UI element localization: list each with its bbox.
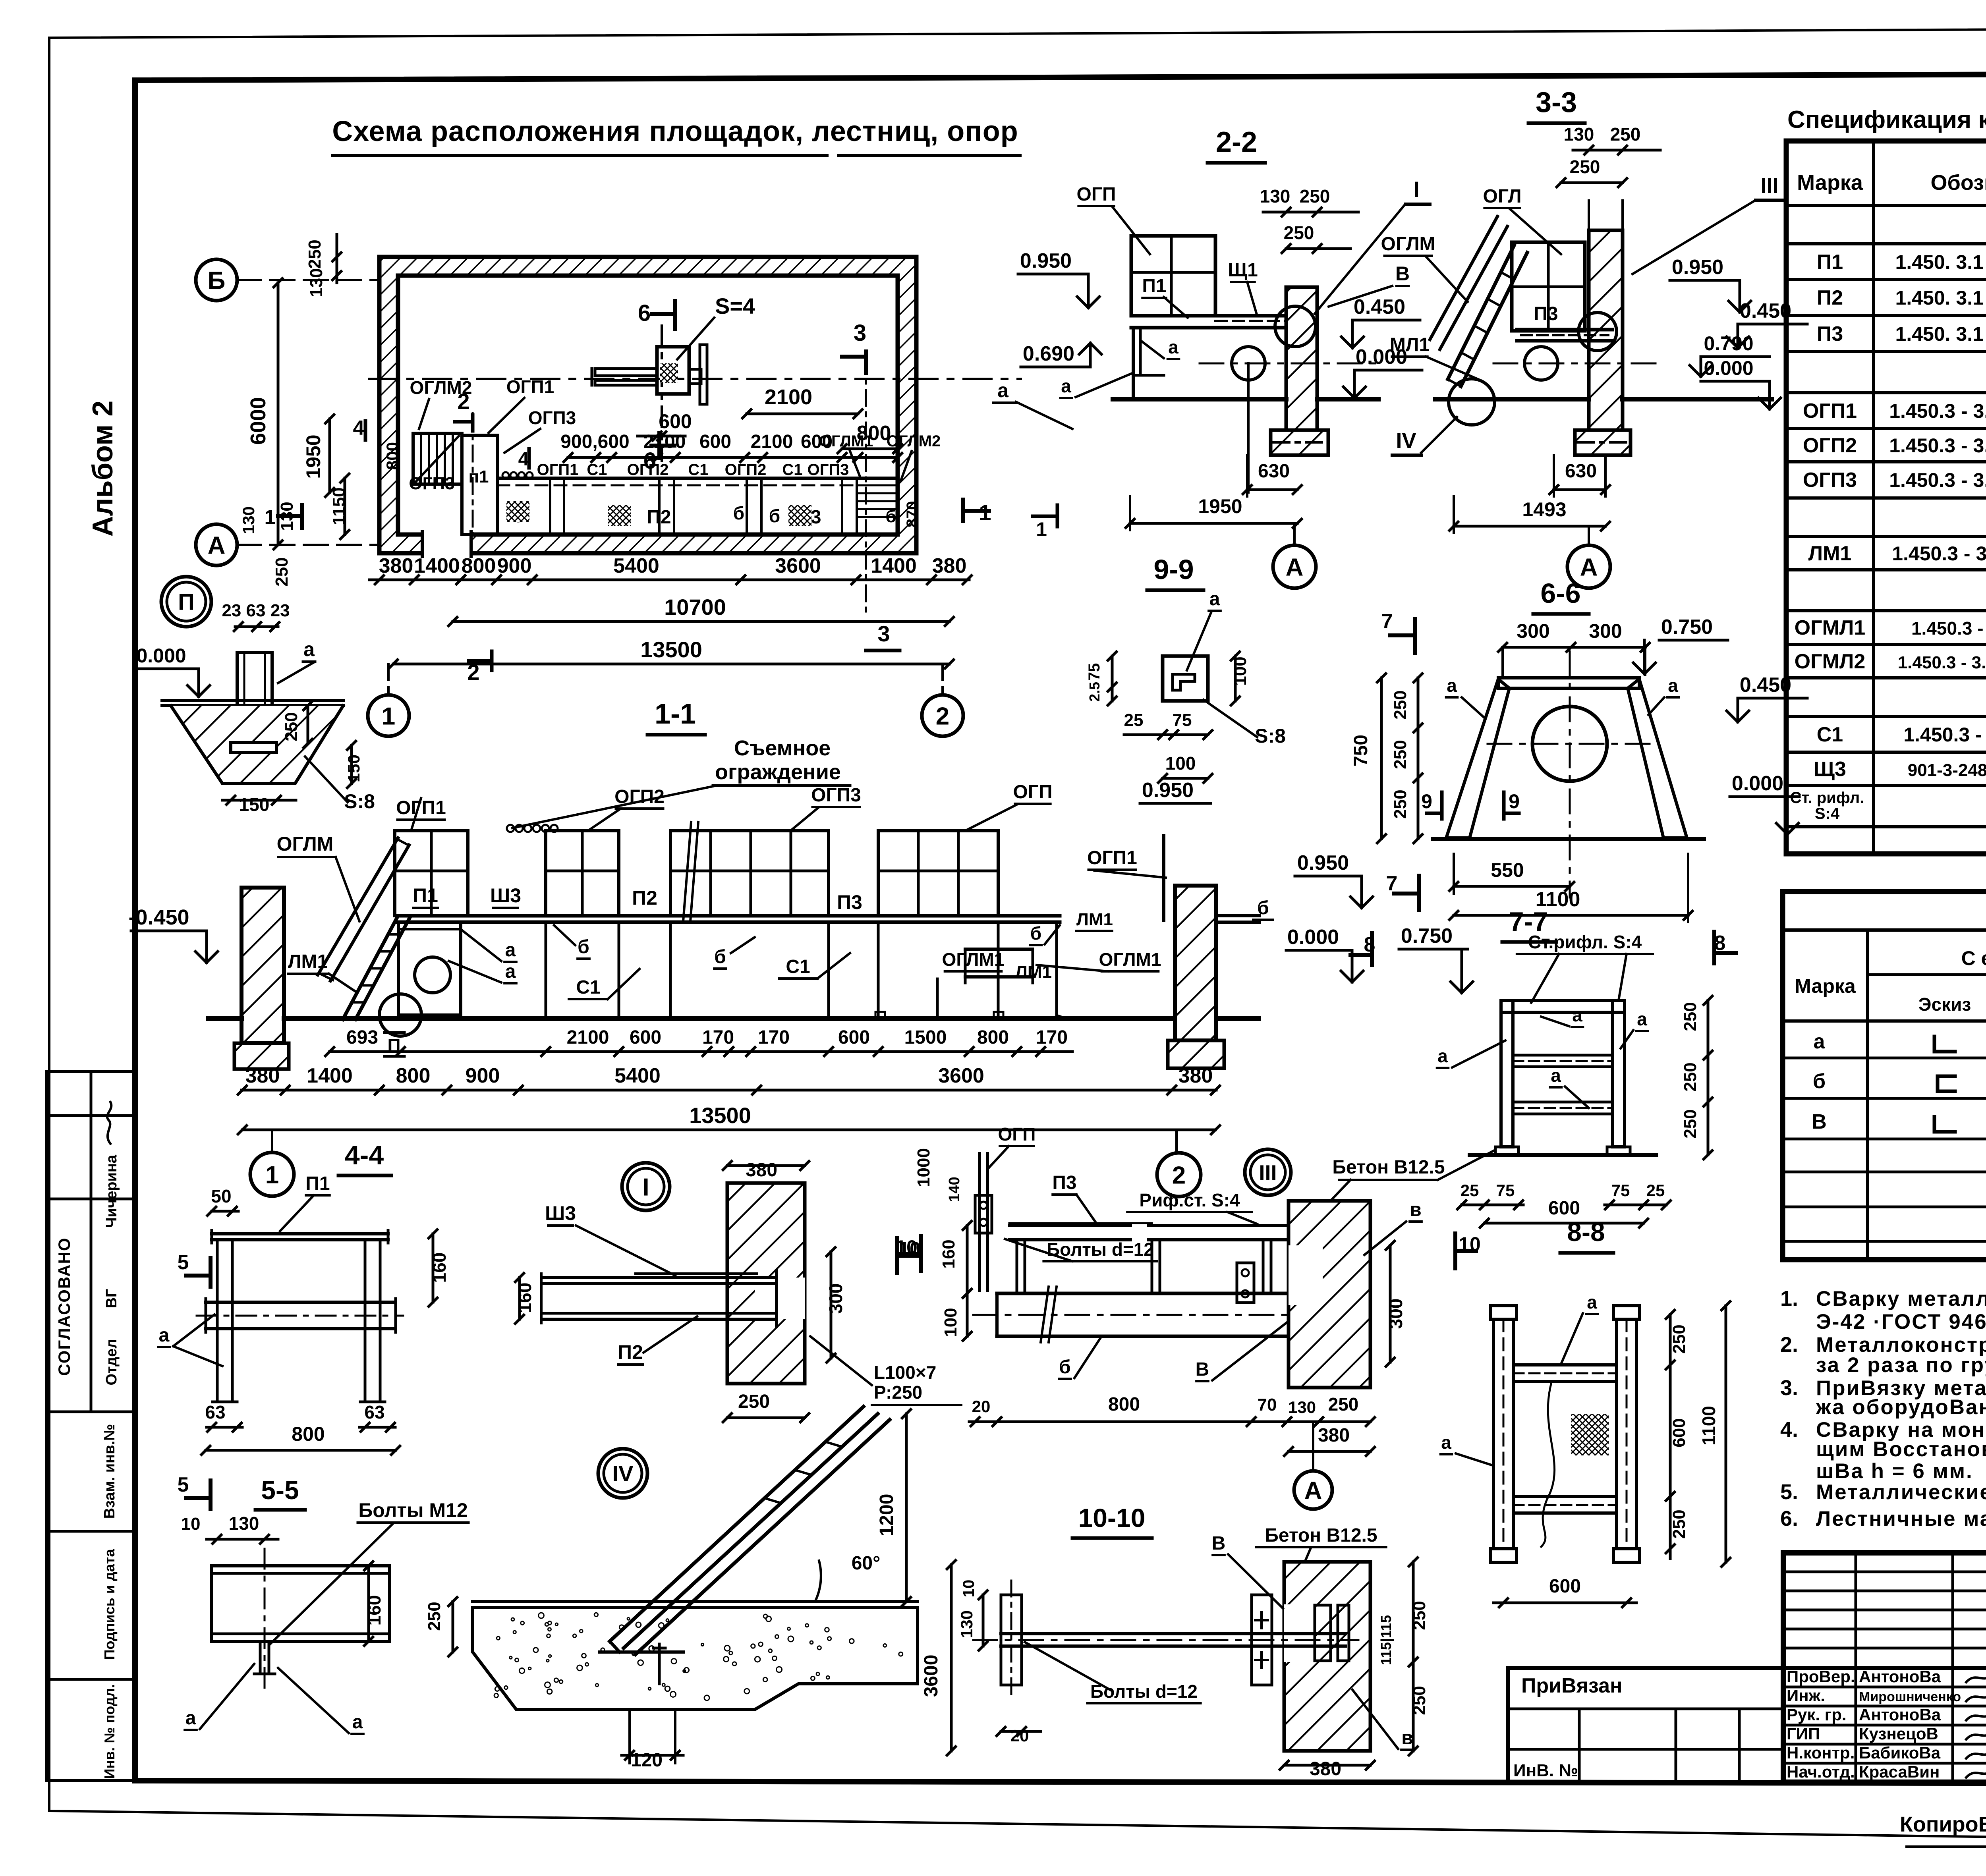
- svg-text:Съемное: Съемное: [734, 736, 831, 760]
- svg-text:в: в: [1401, 1727, 1413, 1749]
- svg-text:Риф.ст. S:4: Риф.ст. S:4: [1139, 1190, 1240, 1210]
- svg-text:1950: 1950: [1198, 495, 1242, 517]
- svg-text:250: 250: [1681, 1062, 1700, 1091]
- svg-text:Схема расположения площадок, л: Схема расположения площадок, лестниц, оп…: [332, 116, 1018, 147]
- svg-text:Инв. № подл.: Инв. № подл.: [101, 1684, 118, 1779]
- svg-text:3600: 3600: [775, 554, 821, 577]
- svg-text:250: 250: [425, 1602, 444, 1631]
- svg-text:2100: 2100: [765, 385, 812, 409]
- svg-text:250: 250: [1681, 1109, 1700, 1138]
- svg-text:250: 250: [1669, 1509, 1689, 1538]
- svg-text:0.950: 0.950: [1142, 779, 1194, 802]
- svg-text:0.790: 0.790: [1704, 332, 1753, 355]
- svg-text:300: 300: [825, 1283, 846, 1314]
- svg-text:130: 130: [1288, 1398, 1316, 1417]
- svg-text:С1: С1: [786, 956, 810, 977]
- svg-text:140: 140: [946, 1177, 963, 1202]
- svg-text:870: 870: [904, 501, 921, 528]
- svg-text:630: 630: [1258, 461, 1290, 482]
- svg-text:0.450: 0.450: [1740, 299, 1791, 322]
- svg-text:800: 800: [396, 1064, 431, 1087]
- svg-text:а: а: [185, 1708, 196, 1729]
- svg-text:а: а: [1572, 1005, 1582, 1025]
- svg-text:2100: 2100: [567, 1027, 609, 1048]
- svg-text:8-8: 8-8: [1567, 1217, 1605, 1247]
- svg-text:800: 800: [1108, 1394, 1140, 1415]
- svg-text:С1: С1: [576, 977, 600, 998]
- svg-text:а: а: [1668, 675, 1678, 696]
- svg-text:Отдел: Отдел: [103, 1339, 120, 1385]
- svg-text:ОГП2: ОГП2: [725, 461, 767, 479]
- svg-text:900: 900: [497, 554, 532, 577]
- svg-text:а: а: [1061, 376, 1071, 396]
- svg-text:13500: 13500: [689, 1103, 751, 1128]
- svg-text:25: 25: [1124, 710, 1144, 730]
- svg-text:1.: 1.: [1780, 1287, 1798, 1310]
- svg-text:10: 10: [181, 1514, 201, 1534]
- svg-text:5.: 5.: [1780, 1480, 1798, 1504]
- svg-text:П2: П2: [647, 507, 671, 528]
- svg-text:б: б: [769, 506, 780, 526]
- svg-text:1.450. 3.1 2.1.1.0.0 - 13: 1.450. 3.1 2.1.1.0.0 - 13: [1895, 251, 1986, 273]
- svg-text:250: 250: [305, 239, 325, 268]
- svg-text:1: 1: [1036, 518, 1047, 540]
- svg-text:S:8: S:8: [1255, 725, 1286, 747]
- svg-text:3: 3: [877, 621, 890, 646]
- svg-text:1500: 1500: [904, 1027, 947, 1048]
- svg-text:250: 250: [1300, 186, 1330, 207]
- svg-text:5-5: 5-5: [261, 1475, 299, 1505]
- svg-text:2100: 2100: [643, 431, 686, 452]
- svg-text:П3: П3: [1052, 1172, 1076, 1193]
- svg-text:150: 150: [239, 794, 270, 815]
- svg-text:70: 70: [1258, 1395, 1277, 1415]
- svg-text:0.000: 0.000: [1732, 772, 1783, 795]
- svg-text:ОГЛМ1: ОГЛМ1: [1099, 949, 1161, 970]
- svg-text:А: А: [1580, 554, 1598, 581]
- svg-text:ИнВ. №: ИнВ. №: [1513, 1761, 1578, 1780]
- svg-text:4: 4: [353, 417, 365, 440]
- svg-text:КопироВал: БоброВа: КопироВал: БоброВа: [1900, 1812, 1986, 1836]
- svg-text:ОГП1: ОГП1: [1803, 400, 1857, 423]
- svg-text:а: а: [352, 1712, 363, 1733]
- svg-text:а: а: [1441, 1432, 1451, 1453]
- svg-text:ОГЛМ: ОГЛМ: [277, 833, 334, 855]
- svg-text:1.450.3 - 3.1 3.1.0.1.0: 1.450.3 - 3.1 3.1.0.1.0: [1903, 724, 1986, 746]
- svg-text:100: 100: [941, 1308, 960, 1337]
- svg-text:75: 75: [1611, 1181, 1630, 1200]
- svg-text:60°: 60°: [852, 1553, 881, 1574]
- svg-text:П2: П2: [632, 887, 657, 909]
- svg-text:б: б: [578, 936, 589, 957]
- svg-text:750: 750: [1350, 735, 1372, 766]
- svg-text:б: б: [1059, 1357, 1071, 1378]
- svg-text:С1: С1: [1817, 723, 1843, 746]
- svg-text:0.750: 0.750: [1661, 616, 1713, 639]
- svg-text:I: I: [1413, 177, 1420, 202]
- svg-text:250: 250: [738, 1391, 770, 1412]
- svg-text:9-9: 9-9: [1153, 554, 1194, 585]
- svg-text:а: а: [1551, 1065, 1561, 1086]
- svg-text:Инж.: Инж.: [1787, 1686, 1825, 1705]
- svg-text:250: 250: [1681, 1002, 1700, 1031]
- svg-text:1.450.3 - 3.1 4.1.2.1.0: 1.450.3 - 3.1 4.1.2.1.0: [1911, 618, 1986, 639]
- svg-text:300: 300: [1517, 620, 1549, 642]
- svg-text:Э-42 ·ГОСТ 9467-75.: Э-42 ·ГОСТ 9467-75.: [1816, 1310, 1986, 1334]
- svg-text:800: 800: [462, 554, 496, 577]
- svg-text:2: 2: [457, 389, 469, 414]
- svg-text:0.450: 0.450: [1740, 674, 1791, 697]
- svg-text:ОГП3: ОГП3: [808, 461, 849, 479]
- svg-text:2.5: 2.5: [1086, 682, 1103, 702]
- svg-text:ОГМЛ2: ОГМЛ2: [1795, 650, 1866, 673]
- svg-text:щим Восстановлением зашитного: щим Восстановлением зашитного покрытия, …: [1816, 1438, 1986, 1461]
- svg-text:380: 380: [379, 554, 413, 577]
- svg-text:800: 800: [383, 442, 402, 470]
- svg-text:2: 2: [936, 703, 949, 730]
- svg-text:Марка: Марка: [1797, 171, 1863, 195]
- svg-text:I: I: [642, 1173, 649, 1201]
- svg-text:б: б: [733, 503, 744, 523]
- svg-text:100: 100: [1231, 656, 1250, 685]
- svg-text:115|115: 115|115: [1378, 1615, 1395, 1665]
- svg-text:5: 5: [178, 1473, 189, 1496]
- svg-text:2: 2: [1172, 1162, 1186, 1189]
- svg-text:КрасаВин: КрасаВин: [1859, 1762, 1940, 1781]
- svg-text:ВГ: ВГ: [103, 1289, 120, 1309]
- svg-text:П2: П2: [618, 1341, 643, 1363]
- svg-text:С1: С1: [587, 461, 607, 479]
- svg-text:Чичерина: Чичерина: [103, 1154, 120, 1228]
- svg-text:75: 75: [1496, 1181, 1515, 1200]
- svg-text:50: 50: [211, 1186, 231, 1206]
- svg-text:25: 25: [1461, 1181, 1479, 1200]
- svg-text:Металлические площадки перек: Металлические площадки перекрыть рифлено…: [1816, 1480, 1986, 1504]
- svg-text:ОГП2: ОГП2: [1803, 434, 1857, 457]
- svg-text:10700: 10700: [664, 594, 726, 620]
- svg-text:600: 600: [801, 431, 833, 452]
- svg-text:Лестничные марши крепить к: Лестничные марши крепить к полу заершенн…: [1816, 1507, 1986, 1531]
- svg-text:250: 250: [1391, 740, 1410, 769]
- svg-text:а: а: [1437, 1046, 1448, 1066]
- svg-text:ОГП1: ОГП1: [537, 461, 579, 479]
- svg-text:жа оборудоВания.: жа оборудоВания.: [1816, 1395, 1986, 1419]
- svg-text:а: а: [1637, 1009, 1647, 1029]
- svg-text:250: 250: [282, 712, 301, 741]
- svg-text:3: 3: [854, 320, 866, 346]
- svg-text:130: 130: [239, 506, 258, 534]
- svg-text:300: 300: [1589, 620, 1622, 642]
- svg-text:3600: 3600: [938, 1064, 984, 1087]
- svg-text:ОГП2: ОГП2: [614, 786, 665, 807]
- svg-text:6: 6: [638, 300, 651, 326]
- svg-text:6.: 6.: [1780, 1507, 1798, 1531]
- svg-text:25: 25: [1646, 1181, 1665, 1200]
- svg-text:ОГП: ОГП: [1076, 184, 1116, 205]
- svg-text:1.450.3 - 3.1 5.1.0.1.0-17: 1.450.3 - 3.1 5.1.0.1.0-17: [1889, 469, 1986, 491]
- svg-text:Б: Б: [208, 267, 226, 294]
- svg-text:Щ3: Щ3: [1814, 758, 1846, 781]
- svg-text:б: б: [1813, 1070, 1826, 1093]
- svg-text:630: 630: [1565, 461, 1597, 482]
- svg-text:900,600: 900,600: [560, 431, 630, 452]
- svg-text:170: 170: [702, 1027, 734, 1048]
- svg-text:130: 130: [1564, 124, 1594, 145]
- svg-text:ОГП1: ОГП1: [1087, 847, 1137, 869]
- svg-text:380: 380: [245, 1064, 280, 1087]
- svg-text:L100×7: L100×7: [874, 1362, 936, 1383]
- svg-text:6-6: 6-6: [1540, 578, 1580, 609]
- svg-text:380: 380: [932, 554, 967, 577]
- svg-text:1400: 1400: [871, 554, 917, 577]
- svg-text:693: 693: [346, 1027, 378, 1048]
- svg-text:в: в: [1410, 1199, 1422, 1220]
- svg-text:В: В: [1812, 1110, 1827, 1133]
- svg-text:Подпись и дата: Подпись и дата: [101, 1549, 118, 1660]
- svg-text:АнтоноВа: АнтоноВа: [1859, 1667, 1941, 1686]
- svg-text:130: 130: [307, 268, 326, 297]
- svg-text:П3: П3: [1817, 322, 1843, 345]
- svg-text:а: а: [505, 961, 516, 982]
- svg-text:Нач.отд.: Нач.отд.: [1787, 1762, 1855, 1781]
- svg-text:В: В: [1196, 1359, 1209, 1380]
- svg-text:300: 300: [1385, 1299, 1406, 1329]
- svg-text:1493: 1493: [1522, 498, 1566, 521]
- svg-text:1: 1: [265, 1161, 279, 1189]
- svg-text:Взам. инв.№: Взам. инв.№: [101, 1424, 118, 1519]
- svg-text:ОГП3: ОГП3: [811, 785, 861, 806]
- svg-text:ОГЛ: ОГЛ: [1483, 186, 1521, 207]
- svg-text:600: 600: [659, 410, 692, 432]
- svg-text:1: 1: [382, 703, 395, 730]
- svg-text:600: 600: [838, 1027, 870, 1048]
- svg-text:250: 250: [1570, 156, 1600, 177]
- svg-text:600: 600: [1549, 1576, 1581, 1597]
- svg-text:250: 250: [1610, 124, 1641, 145]
- svg-text:Болты М12: Болты М12: [358, 1499, 468, 1521]
- svg-text:1400: 1400: [307, 1064, 353, 1087]
- svg-text:550: 550: [1491, 859, 1524, 881]
- svg-text:Ст. рифл.: Ст. рифл.: [1790, 789, 1864, 807]
- svg-text:ОГП2: ОГП2: [627, 461, 669, 479]
- svg-text:Обозначение: Обозначение: [1930, 171, 1986, 195]
- svg-text:1.450.3 - 3.1 5.1.0.1.0-21: 1.450.3 - 3.1 5.1.0.1.0-21: [1889, 434, 1986, 457]
- svg-text:ПроВер.: ПроВер.: [1787, 1667, 1855, 1686]
- svg-text:IV: IV: [1396, 429, 1416, 453]
- svg-text:ОГП: ОГП: [998, 1124, 1036, 1145]
- svg-text:0.950: 0.950: [1672, 256, 1723, 279]
- svg-text:0.450: 0.450: [1354, 295, 1405, 318]
- svg-text:ЛМ1: ЛМ1: [288, 951, 328, 972]
- svg-text:а: а: [303, 638, 315, 660]
- svg-text:Альбом 2: Альбом 2: [87, 401, 119, 537]
- svg-text:Рук. гр.: Рук. гр.: [1787, 1705, 1847, 1724]
- svg-text:250: 250: [1391, 690, 1410, 719]
- svg-text:20: 20: [1010, 1726, 1029, 1745]
- svg-text:Болты d=12: Болты d=12: [1090, 1681, 1198, 1702]
- svg-text:3600: 3600: [921, 1655, 942, 1697]
- svg-text:900: 900: [466, 1064, 500, 1087]
- svg-text:П2: П2: [1817, 286, 1843, 309]
- svg-text:П1: П1: [305, 1173, 330, 1194]
- svg-text:600: 600: [630, 1027, 661, 1048]
- svg-text:III: III: [1760, 174, 1778, 198]
- svg-text:6000: 6000: [246, 397, 270, 445]
- svg-text:250: 250: [1328, 1394, 1359, 1415]
- svg-text:СВарку металлоконструкций пр: СВарку металлоконструкций произВодить эл…: [1816, 1287, 1986, 1310]
- svg-text:А: А: [208, 532, 226, 559]
- svg-text:п1: п1: [468, 467, 489, 486]
- svg-text:1: 1: [265, 506, 276, 529]
- svg-text:Ст.рифл. S:4: Ст.рифл. S:4: [1528, 932, 1642, 952]
- svg-text:МЛ1: МЛ1: [1390, 334, 1430, 355]
- svg-text:а: а: [505, 940, 516, 961]
- svg-text:5400: 5400: [614, 1064, 661, 1087]
- svg-text:1200: 1200: [876, 1494, 897, 1536]
- svg-text:S:8: S:8: [344, 790, 375, 813]
- svg-text:Бетон В12.5: Бетон В12.5: [1265, 1525, 1377, 1546]
- svg-text:1.450.3 - 3.1 4.1.2.1.0 - 09: 1.450.3 - 3.1 4.1.2.1.0 - 09: [1898, 653, 1986, 672]
- svg-text:5: 5: [178, 1251, 189, 1274]
- svg-text:III: III: [1259, 1161, 1277, 1185]
- svg-text:ОГП3: ОГП3: [528, 407, 576, 428]
- svg-text:600: 600: [1548, 1198, 1580, 1219]
- svg-text:0.750: 0.750: [1401, 924, 1453, 948]
- svg-text:13500: 13500: [640, 637, 702, 662]
- svg-text:170: 170: [1036, 1027, 1068, 1048]
- svg-text:В: В: [1395, 262, 1410, 285]
- svg-text:1000: 1000: [914, 1148, 933, 1187]
- svg-text:0.000: 0.000: [1287, 926, 1339, 949]
- svg-text:160: 160: [364, 1595, 384, 1626]
- svg-text:2100: 2100: [751, 431, 793, 452]
- svg-text:100: 100: [1165, 753, 1196, 774]
- svg-text:б: б: [885, 507, 896, 526]
- svg-text:800: 800: [977, 1027, 1009, 1048]
- svg-text:23 63 23: 23 63 23: [222, 601, 290, 620]
- svg-text:Болты d=12: Болты d=12: [1047, 1239, 1154, 1260]
- svg-text:ПриВязан: ПриВязан: [1521, 1674, 1623, 1697]
- svg-text:10: 10: [960, 1580, 978, 1598]
- svg-text:0.000: 0.000: [1704, 357, 1753, 379]
- svg-text:ОГП: ОГП: [1013, 782, 1052, 803]
- svg-text:1.450.3 - 3.1 5.1.0.1.0-16: 1.450.3 - 3.1 5.1.0.1.0-16: [1889, 400, 1986, 422]
- svg-text:S:4: S:4: [1815, 805, 1840, 822]
- svg-text:120: 120: [631, 1750, 663, 1771]
- svg-text:160: 160: [939, 1239, 958, 1268]
- svg-text:IV: IV: [612, 1461, 634, 1486]
- svg-text:П1: П1: [1817, 251, 1843, 274]
- svg-text:600: 600: [699, 431, 731, 452]
- svg-text:ЛМ1: ЛМ1: [1808, 542, 1852, 565]
- svg-text:П3: П3: [1534, 303, 1558, 324]
- svg-text:А: А: [1304, 1477, 1322, 1504]
- svg-text:3.: 3.: [1780, 1376, 1798, 1400]
- svg-text:П1: П1: [413, 884, 438, 907]
- svg-text:250: 250: [1391, 789, 1410, 818]
- svg-text:С е ч е н и е: С е ч е н и е: [1961, 947, 1986, 969]
- svg-text:П: П: [387, 1035, 400, 1056]
- svg-text:250: 250: [1669, 1324, 1689, 1353]
- svg-text:а: а: [1168, 337, 1178, 357]
- svg-text:1.450. 3.1 2.1.1.0.0 - 22: 1.450. 3.1 2.1.1.0.0 - 22: [1895, 323, 1986, 345]
- svg-text:250: 250: [272, 557, 292, 586]
- svg-text:600: 600: [1669, 1418, 1689, 1447]
- svg-text:1950: 1950: [302, 434, 325, 479]
- svg-text:Р:250: Р:250: [874, 1382, 922, 1403]
- svg-text:20: 20: [972, 1397, 991, 1416]
- svg-text:800: 800: [292, 1423, 325, 1445]
- svg-text:-0.450: -0.450: [128, 905, 189, 929]
- svg-text:2.: 2.: [1780, 1333, 1798, 1357]
- svg-text:0.950: 0.950: [1297, 851, 1349, 874]
- svg-text:1.450. 3.1 2.1.1.0.0 - 31: 1.450. 3.1 2.1.1.0.0 - 31: [1895, 287, 1986, 309]
- svg-text:Марка: Марка: [1795, 975, 1856, 997]
- svg-text:0.690: 0.690: [1023, 342, 1074, 365]
- svg-text:S=4: S=4: [715, 293, 755, 318]
- svg-text:ГИП: ГИП: [1787, 1724, 1820, 1743]
- svg-text:ОГМЛ1: ОГМЛ1: [1795, 616, 1866, 639]
- svg-text:Ш3: Ш3: [490, 884, 521, 907]
- svg-text:С1: С1: [688, 461, 708, 479]
- svg-text:63: 63: [364, 1402, 384, 1422]
- svg-text:1100: 1100: [1698, 1406, 1719, 1446]
- svg-text:75: 75: [1173, 710, 1192, 730]
- svg-text:ОГП3: ОГП3: [1803, 469, 1857, 492]
- svg-text:а: а: [1209, 589, 1220, 610]
- svg-text:0.950: 0.950: [1020, 249, 1072, 272]
- svg-text:250: 250: [1284, 222, 1314, 243]
- svg-text:ЛМ1: ЛМ1: [1076, 910, 1113, 929]
- svg-text:Мирошниченко: Мирошниченко: [1859, 1689, 1961, 1704]
- svg-text:ОГП1: ОГП1: [506, 376, 554, 397]
- svg-text:Щ1: Щ1: [1228, 260, 1258, 281]
- svg-text:10-10: 10-10: [1078, 1503, 1146, 1532]
- svg-text:Спецификация к схеме расположе: Спецификация к схеме расположения площад…: [1787, 106, 1986, 133]
- svg-text:ОГЛМ2: ОГЛМ2: [887, 432, 941, 450]
- svg-text:а: а: [1814, 1030, 1826, 1053]
- svg-text:4.: 4.: [1780, 1418, 1798, 1442]
- svg-text:шВа h = 6 мм.: шВа h = 6 мм.: [1816, 1459, 1973, 1483]
- svg-text:0.000: 0.000: [136, 645, 186, 667]
- svg-text:170: 170: [758, 1027, 790, 1048]
- svg-text:75: 75: [1086, 663, 1103, 681]
- svg-text:1.450.3 - 3.1 1.2.0.0 - 03: 1.450.3 - 3.1 1.2.0.0 - 03: [1892, 542, 1986, 565]
- svg-text:В: В: [1212, 1533, 1226, 1554]
- svg-text:П: П: [178, 589, 195, 615]
- svg-text:4-4: 4-4: [345, 1140, 384, 1170]
- svg-text:СОГЛАСОВАНО: СОГЛАСОВАНО: [55, 1237, 73, 1376]
- svg-text:Н.контр.: Н.контр.: [1787, 1743, 1855, 1762]
- svg-text:а: а: [997, 379, 1009, 401]
- svg-text:1150: 1150: [329, 487, 349, 525]
- svg-text:б: б: [1030, 923, 1041, 944]
- svg-text:130: 130: [1260, 186, 1291, 207]
- svg-text:1-1: 1-1: [655, 698, 696, 730]
- svg-text:380: 380: [746, 1160, 777, 1181]
- svg-text:380: 380: [1178, 1064, 1213, 1087]
- svg-text:5400: 5400: [613, 554, 659, 577]
- svg-text:ОГЛМ: ОГЛМ: [1381, 234, 1435, 255]
- svg-text:АнтоноВа: АнтоноВа: [1859, 1705, 1941, 1724]
- svg-text:а: а: [1587, 1292, 1597, 1312]
- svg-text:63: 63: [205, 1402, 225, 1422]
- svg-text:ограждение: ограждение: [715, 760, 841, 784]
- svg-text:П1: П1: [1142, 276, 1166, 297]
- svg-text:9: 9: [1509, 790, 1520, 813]
- svg-text:ОГЛМ1: ОГЛМ1: [942, 949, 1005, 970]
- svg-text:Бетон В12.5: Бетон В12.5: [1332, 1157, 1445, 1178]
